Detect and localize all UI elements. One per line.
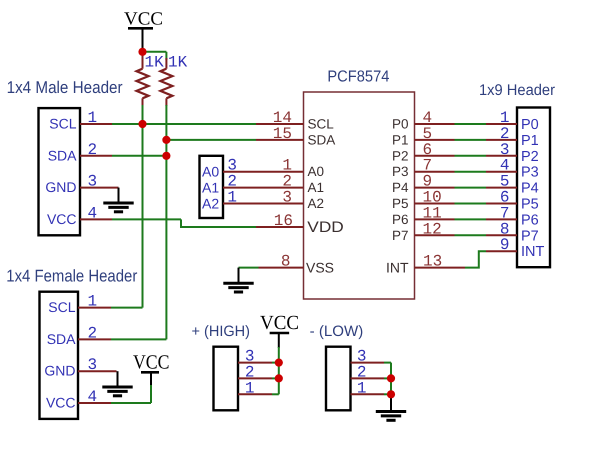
svg-text:1x4 Female Header: 1x4 Female Header — [6, 267, 137, 286]
svg-text:P4: P4 — [392, 180, 409, 195]
svg-text:1: 1 — [357, 379, 367, 397]
svg-text:A2: A2 — [308, 196, 325, 211]
svg-text:P1: P1 — [521, 133, 539, 149]
svg-text:P7: P7 — [392, 228, 409, 243]
svg-text:VCC: VCC — [133, 351, 170, 373]
svg-text:PCF8574: PCF8574 — [327, 69, 389, 86]
svg-text:SDA: SDA — [47, 331, 76, 347]
svg-text:12: 12 — [423, 220, 442, 238]
svg-text:VDD: VDD — [307, 219, 344, 236]
svg-text:1x9 Header: 1x9 Header — [479, 82, 555, 99]
svg-text:SDA: SDA — [308, 132, 336, 147]
svg-text:3: 3 — [282, 189, 292, 207]
svg-text:VSS: VSS — [306, 259, 334, 275]
svg-text:P3: P3 — [392, 164, 409, 179]
svg-text:A0: A0 — [308, 164, 325, 179]
svg-text:1x4 Male Header: 1x4 Male Header — [7, 78, 123, 97]
svg-text:P2: P2 — [521, 149, 539, 165]
svg-text:16: 16 — [274, 212, 293, 230]
svg-text:+ (HIGH): + (HIGH) — [192, 323, 251, 340]
svg-text:1K: 1K — [168, 54, 188, 72]
svg-text:P5: P5 — [521, 197, 539, 213]
svg-text:VCC: VCC — [46, 395, 76, 411]
svg-text:INT: INT — [521, 244, 545, 260]
svg-text:VCC: VCC — [260, 312, 299, 334]
svg-text:- (LOW): - (LOW) — [310, 323, 364, 340]
svg-text:SCL: SCL — [308, 117, 335, 132]
svg-text:P5: P5 — [392, 196, 409, 211]
svg-text:8: 8 — [281, 252, 291, 270]
svg-text:P1: P1 — [392, 132, 409, 147]
svg-text:P0: P0 — [392, 117, 409, 132]
svg-text:VCC: VCC — [124, 9, 163, 29]
svg-text:INT: INT — [386, 259, 409, 275]
svg-text:SCL: SCL — [48, 299, 75, 315]
svg-text:15: 15 — [273, 125, 292, 143]
svg-text:P6: P6 — [521, 212, 539, 228]
svg-text:GND: GND — [45, 179, 76, 195]
svg-text:A1: A1 — [202, 180, 219, 196]
svg-text:VCC: VCC — [47, 211, 77, 227]
svg-text:GND: GND — [44, 363, 75, 379]
svg-text:A0: A0 — [202, 164, 219, 180]
svg-text:SCL: SCL — [49, 116, 76, 132]
svg-text:P0: P0 — [521, 117, 539, 133]
svg-text:A2: A2 — [202, 196, 219, 212]
svg-text:1: 1 — [245, 379, 255, 397]
svg-text:13: 13 — [423, 252, 442, 270]
svg-text:P3: P3 — [521, 165, 539, 181]
svg-text:9: 9 — [500, 236, 510, 254]
svg-text:1K: 1K — [145, 54, 165, 72]
svg-text:P2: P2 — [392, 148, 409, 163]
svg-text:SDA: SDA — [48, 147, 77, 163]
svg-text:P6: P6 — [392, 212, 409, 227]
svg-text:A1: A1 — [308, 180, 325, 195]
svg-text:P7: P7 — [521, 228, 539, 244]
svg-text:P4: P4 — [521, 181, 539, 197]
